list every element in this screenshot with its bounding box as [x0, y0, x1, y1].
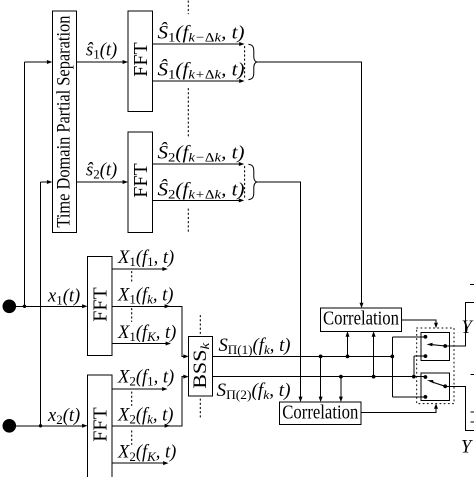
svg-text:Y: Y [461, 438, 473, 458]
svg-text:SΠ(2)(fk, t): SΠ(2)(fk, t) [217, 381, 291, 402]
svg-text:Ŝ1(fk−Δk, t): Ŝ1(fk−Δk, t) [158, 22, 245, 45]
svg-text:X1(fk, t): X1(fk, t) [117, 286, 173, 307]
svg-text:Y: Y [462, 318, 474, 338]
svg-text:x1(t): x1(t) [47, 287, 80, 308]
svg-text:X1(f1, t): X1(f1, t) [117, 248, 174, 269]
svg-text:SΠ(1)(fk, t): SΠ(1)(fk, t) [219, 336, 291, 357]
svg-text:X2(fk, t): X2(fk, t) [117, 405, 173, 426]
svg-text:BSSk: BSSk [190, 343, 212, 389]
svg-text:ŝ1(t): ŝ1(t) [86, 41, 117, 62]
svg-text:X2(f1, t): X2(f1, t) [117, 368, 174, 389]
svg-text:Ŝ2(fk−Δk, t): Ŝ2(fk−Δk, t) [158, 142, 245, 165]
svg-text:FFT: FFT [90, 407, 112, 441]
svg-text:Correlation: Correlation [282, 402, 358, 424]
svg-text:Correlation: Correlation [323, 308, 399, 330]
svg-text:FFT: FFT [90, 287, 112, 321]
svg-text:X1(fK, t): X1(fK, t) [117, 323, 176, 344]
svg-text:x2(t): x2(t) [47, 406, 80, 427]
svg-text:Ŝ2(fk+Δk, t): Ŝ2(fk+Δk, t) [158, 179, 245, 202]
svg-text:X2(fK, t): X2(fK, t) [117, 443, 176, 464]
svg-text:Ŝ1(fk+Δk, t): Ŝ1(fk+Δk, t) [158, 59, 245, 82]
svg-text:Time Domain Partial Separation: Time Domain Partial Separation [54, 15, 75, 227]
svg-text:FFT: FFT [130, 163, 152, 197]
svg-text:FFT: FFT [130, 42, 152, 76]
svg-text:ŝ2(t): ŝ2(t) [86, 161, 117, 182]
